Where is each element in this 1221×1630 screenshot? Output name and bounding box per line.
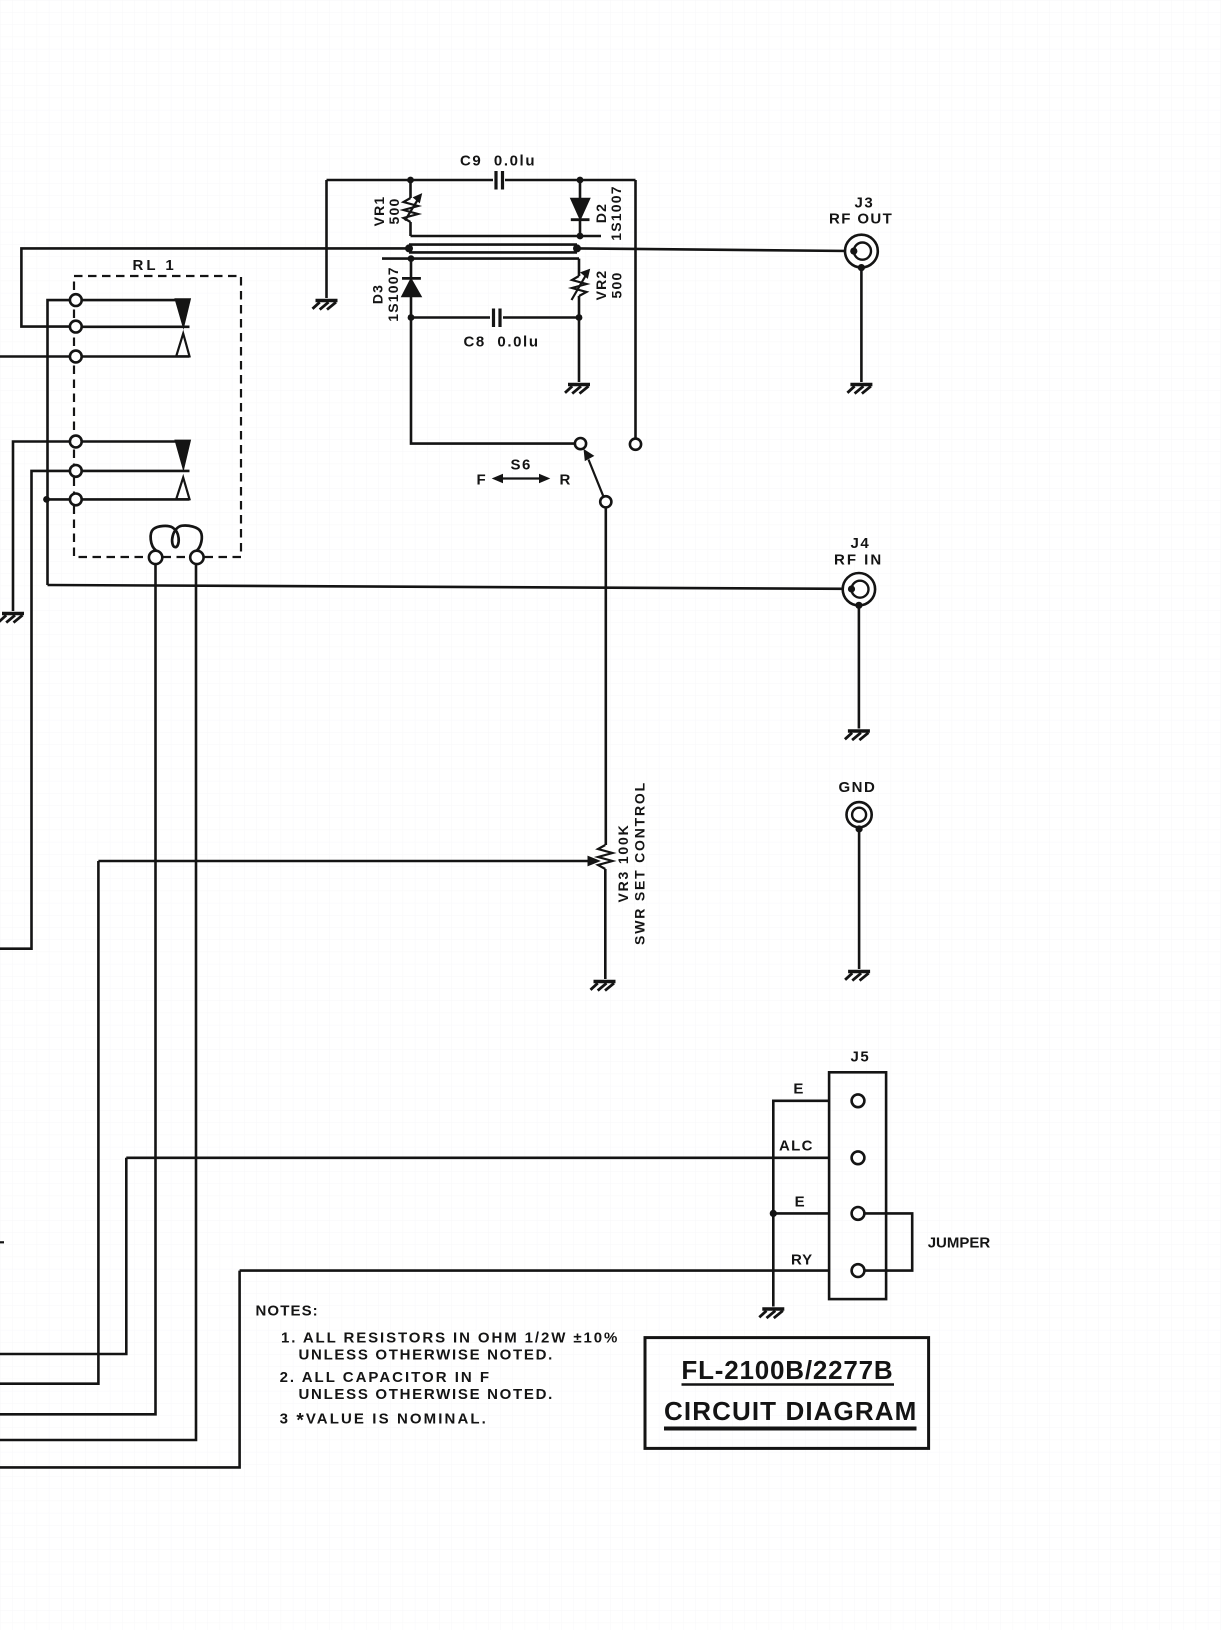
wire D3 branch down to S6 left contact bbox=[411, 318, 575, 444]
wire J5 pin3 E to riser junction bbox=[773, 1212, 829, 1215]
J5 pin 4 bbox=[852, 1264, 865, 1277]
svg-text:VR2500: VR2500 bbox=[593, 270, 625, 301]
svg-text:J5: J5 bbox=[851, 1049, 871, 1066]
node junction D3 top bbox=[408, 255, 415, 262]
node junction D2 bottom bbox=[577, 233, 584, 240]
relay pin 4 bbox=[70, 436, 82, 448]
svg-text:RY: RY bbox=[791, 1252, 813, 1269]
relay contact b bottom wire bbox=[82, 498, 190, 501]
VR3 wiper arrow from left bbox=[98, 860, 589, 863]
svg-text:F: F bbox=[477, 472, 486, 489]
svg-text:FL-2100B/2277B: FL-2100B/2277B bbox=[681, 1355, 893, 1385]
wire J4 shell to ground bbox=[858, 605, 861, 728]
relay coil pin right bbox=[190, 551, 203, 564]
svg-text:RL 1: RL 1 bbox=[133, 257, 177, 274]
svg-text:RF OUT: RF OUT bbox=[829, 211, 893, 228]
title block box bbox=[645, 1338, 929, 1449]
svg-text:ALC: ALC bbox=[779, 1138, 814, 1155]
wire top bus from left ground riser to S6 right riser bbox=[327, 179, 494, 182]
node J3 shell bbox=[858, 264, 865, 271]
relay pin 6 bbox=[70, 494, 82, 506]
wire RY line from left riser to J5 pin4 bbox=[240, 1269, 830, 1272]
node junction D2 top bbox=[577, 177, 584, 184]
wire stub artifact at left edge bbox=[0, 1241, 4, 1243]
relay pin 5 bbox=[70, 465, 82, 477]
node junction C8 left bbox=[408, 314, 415, 321]
jumper loop pin3 to pin4 bbox=[865, 1213, 913, 1270]
J5 pin 3 bbox=[852, 1207, 865, 1220]
svg-text:NOTES:: NOTES: bbox=[256, 1303, 319, 1320]
relay RL1 dashed enclosure bbox=[74, 276, 241, 557]
wire relay pin 5 exits left edge via riser bbox=[0, 471, 70, 949]
wire coil left riser exits left edge bbox=[0, 564, 156, 1414]
ground below GND connector bbox=[845, 972, 870, 981]
wire ALC riser exits left edge bbox=[0, 1158, 126, 1354]
wire main RF line right segment to J3 bbox=[577, 248, 851, 251]
S6 arm pivot bbox=[600, 496, 611, 507]
connector J4 inner bbox=[852, 581, 869, 598]
svg-text:1. ALL RESISTORS IN OHM 1/2W: 1. ALL RESISTORS IN OHM 1/2W ±10% bbox=[281, 1330, 619, 1347]
svg-text:GND: GND bbox=[839, 779, 877, 796]
svg-text:CIRCUIT DIAGRAM: CIRCUIT DIAGRAM bbox=[664, 1396, 917, 1426]
svg-text:RF IN: RF IN bbox=[834, 552, 883, 569]
svg-text:UNLESS OTHERWISE NOTED.: UNLESS OTHERWISE NOTED. bbox=[299, 1347, 555, 1364]
svg-text:VR1500: VR1500 bbox=[371, 196, 402, 227]
connector J3 inner bbox=[854, 243, 871, 260]
wire left riser to ground bbox=[325, 180, 328, 298]
wire S6 right riser from top bus bbox=[634, 180, 637, 439]
relay contact b lower (open triangle) bbox=[176, 478, 189, 500]
J5 pin 2 bbox=[852, 1151, 865, 1164]
relay contact a top wire bbox=[82, 299, 176, 302]
double arrow between F and R bbox=[500, 477, 542, 479]
wire relay pin 4 to ground riser bbox=[13, 442, 70, 612]
svg-text:R: R bbox=[560, 472, 571, 489]
svg-text:J4: J4 bbox=[851, 535, 871, 552]
node coupler left bbox=[405, 244, 413, 252]
node junction E riser pin3 bbox=[770, 1210, 777, 1217]
capacitor C8 bbox=[494, 309, 501, 328]
relay contact a moving arm (filled) bbox=[175, 299, 190, 327]
ground below VR2 bbox=[565, 385, 590, 394]
S6 arm with arrowhead bbox=[589, 460, 604, 497]
wire top pickup line VR1 bottom to D2 bottom with stub bbox=[411, 235, 602, 238]
wire circle1 to left riser going down to J4 bus bbox=[48, 300, 71, 585]
relay contact a bottom wire bbox=[82, 355, 190, 358]
node coupler right bbox=[573, 244, 581, 252]
wire coil right riser exits left edge bbox=[0, 564, 196, 1440]
node J3 center pin bbox=[850, 248, 857, 255]
wire J4 bus from RL1 riser to J4 bbox=[48, 585, 849, 589]
ground below relay pin 4 wire bbox=[0, 614, 24, 623]
ground below J4 bbox=[845, 731, 870, 740]
wire RY riser exits left edge bbox=[0, 1271, 240, 1468]
relay contact a middle wire bbox=[82, 325, 190, 328]
potentiometer VR1 bbox=[409, 180, 412, 198]
svg-text:E: E bbox=[795, 1194, 805, 1211]
relay coil pin left bbox=[149, 551, 162, 564]
relay contact b middle wire bbox=[82, 470, 190, 473]
wire main RF line left segment to RL1 bbox=[21, 248, 409, 326]
ground below J5 E riser bbox=[759, 1309, 784, 1318]
svg-text:C8 0.0lu: C8 0.0lu bbox=[464, 334, 540, 351]
capacitor C9 bbox=[496, 171, 503, 190]
connector GND outer bbox=[847, 802, 872, 827]
svg-text:C9 0.0lu: C9 0.0lu bbox=[460, 153, 536, 170]
wire J5 pin1 E to ground riser bbox=[773, 1101, 829, 1307]
potentiometer VR3 bbox=[598, 845, 613, 869]
node J4 shell bbox=[855, 602, 862, 609]
title line 1 underline bbox=[682, 1383, 895, 1386]
node GND shell bbox=[856, 825, 863, 832]
ground below left riser bbox=[313, 301, 338, 310]
diode D3 bbox=[410, 259, 413, 278]
relay pin 3 bbox=[70, 351, 82, 363]
svg-text:E: E bbox=[793, 1081, 803, 1098]
wire GND connector to ground bbox=[858, 829, 861, 969]
node junction VR1 top bbox=[407, 177, 414, 184]
node junction circle6 branch bbox=[43, 496, 50, 503]
connector J5 body bbox=[829, 1072, 886, 1299]
wire bottom pickup line with left stub bbox=[382, 257, 579, 260]
node junction C8 right bbox=[576, 314, 583, 321]
J5 pin 1 bbox=[852, 1094, 865, 1107]
wire C8 line D3 bottom to VR2 bottom bbox=[411, 316, 490, 319]
wire ALC line from left riser to J5 pin2 bbox=[126, 1157, 829, 1160]
relay RL1 coil bbox=[151, 526, 202, 551]
svg-text:2. ALL CAPACITOR IN F: 2. ALL CAPACITOR IN F bbox=[280, 1369, 491, 1386]
connector J3 outer bbox=[845, 235, 878, 268]
connector GND inner bbox=[852, 808, 866, 822]
svg-text:S6: S6 bbox=[511, 457, 532, 474]
wire S6 pivot down to VR3 bbox=[604, 507, 607, 845]
wire VR3 wiper riser exits left edge bbox=[0, 861, 98, 1384]
wire VR2 bottom to ground bbox=[578, 318, 581, 383]
relay contact b moving arm (filled) bbox=[175, 440, 190, 468]
relay contact b top wire bbox=[82, 440, 176, 443]
relay pin 1 bbox=[70, 294, 82, 306]
S6 left contact bbox=[575, 438, 586, 449]
S6 right contact bbox=[630, 439, 641, 450]
coupled line section bbox=[409, 243, 577, 246]
connector J4 outer bbox=[843, 573, 875, 605]
ground below VR3 bbox=[591, 982, 616, 991]
svg-text:UNLESS OTHERWISE NOTED.: UNLESS OTHERWISE NOTED. bbox=[299, 1386, 555, 1403]
wire from left edge into relay pin 3 bbox=[0, 355, 70, 358]
wire J3 shell to ground bbox=[860, 268, 863, 382]
diode D2 bbox=[579, 180, 582, 198]
node J4 center pin bbox=[848, 585, 855, 592]
svg-text:J3: J3 bbox=[855, 195, 875, 212]
svg-text:JUMPER: JUMPER bbox=[928, 1235, 991, 1252]
title line 2 underline bbox=[664, 1427, 917, 1431]
relay contact a lower (open triangle) bbox=[176, 334, 189, 357]
potentiometer VR2 bbox=[578, 259, 581, 276]
ground below J3 bbox=[847, 385, 872, 394]
relay pin 2 bbox=[70, 321, 82, 333]
wire relay pin 6 to junction bbox=[47, 498, 71, 501]
